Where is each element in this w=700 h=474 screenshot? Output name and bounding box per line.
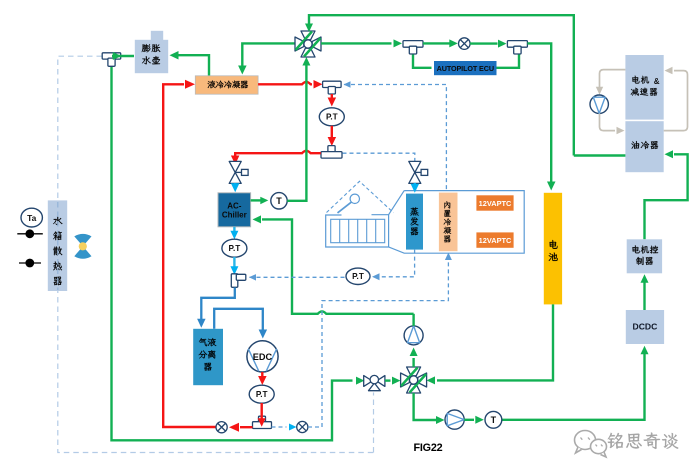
wire gray pump to oil cooler — [600, 114, 616, 131]
arrow green down into condenser top — [238, 66, 247, 75]
fitting tee red bottom inverted — [328, 146, 335, 153]
sensor probe2 — [19, 262, 41, 264]
wire cyan P.T to fitting — [233, 257, 235, 269]
svg-text:12VAPTC: 12VAPTC — [479, 199, 512, 208]
fitting tee expansion-tank — [102, 53, 121, 59]
wire green tee3 to battery — [527, 43, 551, 182]
wire red tee5 left to xvalveA (hop) — [235, 151, 321, 158]
pump oil pump3 — [590, 95, 608, 113]
wire green ox3 to tee3 — [470, 42, 498, 44]
wire green tee to tank + arrow — [112, 55, 134, 57]
compressor EDC — [247, 341, 278, 372]
wire green AC-Chiller to T sensor — [251, 199, 261, 201]
wire dashed evap P.T to fitting arrow — [249, 274, 256, 281]
component built-in condenser 内置冷凝器 — [439, 193, 458, 252]
sensor T bottom — [485, 411, 502, 428]
fitting tee autopilot left — [403, 41, 423, 48]
fan radiator fan — [74, 234, 91, 246]
wire red condenser to tee (hop over green) — [258, 82, 312, 84]
valve red shutoff ox1 — [216, 422, 227, 433]
wire green valve1 to condenser — [242, 43, 295, 66]
wire red P.T down to tee5 — [331, 126, 333, 139]
sensor P.T discharge — [249, 385, 274, 403]
wire blue separator to EDC — [214, 309, 263, 331]
sensor P.T evaporator — [346, 268, 370, 284]
wire green pump2 to T2 — [464, 419, 474, 421]
component HVAC damper flap — [350, 194, 359, 203]
wire dashed overlay radiator — [57, 202, 59, 290]
arrow cyan into evaporator — [414, 183, 416, 186]
svg-text:DCDC: DCDC — [632, 321, 657, 331]
wire green oil cooler left to top — [574, 154, 626, 156]
valve expansion xvalveA — [229, 161, 241, 172]
wire green controller to oil cooler — [645, 154, 688, 239]
component motor controller 电机控制器 — [627, 239, 662, 273]
wire blue fitting to separator — [201, 288, 235, 321]
component evaporator 蒸发器 — [406, 194, 423, 250]
watermark 铭思奇谈 — [608, 433, 623, 449]
label 膨胀水壶 — [142, 44, 151, 52]
wire green valve2 bottom to pump2 — [414, 393, 436, 420]
wire green DCDC to controller — [643, 282, 645, 310]
arrow green into oil cooler right — [665, 150, 674, 158]
watermark wechat logo — [575, 431, 607, 458]
valve multiport valve1 — [301, 31, 315, 40]
sensor probe1 — [17, 233, 43, 235]
label 电机控制器 — [632, 245, 639, 253]
svg-text:AC-: AC- — [227, 201, 242, 210]
wire green autopilot loop — [413, 55, 432, 68]
component HVAC intake dashed hood — [327, 181, 394, 212]
arrow green up into DCDC — [641, 346, 649, 355]
arrow green up into valve1 — [302, 57, 310, 66]
component HVAC casing outline — [326, 191, 525, 254]
svg-text:Chiller: Chiller — [222, 211, 247, 220]
component AC-Chiller — [218, 193, 251, 227]
wire green into 3-way valve arrow — [356, 377, 365, 385]
component motor&reducer 电机&减速器 — [625, 55, 663, 120]
fitting tee red top — [323, 81, 342, 87]
arrow green into tank right — [170, 51, 179, 60]
svg-text:AUTOPILOT ECU: AUTOPILOT ECU — [437, 64, 494, 73]
valve multiport valve2 — [407, 367, 421, 376]
component AUTOPILOT ECU box — [434, 61, 497, 75]
wire green condenser-out to tank — [175, 55, 209, 75]
svg-text:12VAPTC: 12VAPTC — [479, 236, 512, 245]
label 内置冷凝器 — [444, 201, 450, 208]
label 液冷冷凝器 — [208, 81, 216, 89]
wire green valve3 to valve2 — [385, 379, 391, 381]
component DCDC — [626, 310, 664, 344]
component PTC heater bottom 12VAPTC — [476, 232, 513, 247]
valve 3-way valve3 — [364, 376, 373, 387]
valve green shutoff ox3 — [459, 38, 471, 50]
valve expansion xvalveB — [409, 161, 421, 172]
component expansion tank cap — [151, 31, 163, 41]
svg-text:P.T: P.T — [352, 272, 364, 281]
svg-text:P.T: P.T — [256, 390, 268, 399]
svg-text:EDC: EDC — [253, 352, 273, 362]
arrow red into tee4 — [314, 80, 323, 89]
wire green oil-cooler to valve1 top — [309, 15, 574, 155]
wire red EDC to P.T — [261, 372, 263, 378]
arrow red into condenser left — [185, 80, 195, 89]
net control-boundary dashed left/bottom — [58, 56, 374, 452]
arrow gray into oil cooler left — [617, 127, 625, 135]
wire red tee7 left to oxvalve — [240, 426, 253, 428]
component PTC heater top 12VAPTC — [476, 195, 513, 210]
wire green valve2 to pump1 — [412, 358, 414, 367]
wire green T to valve1 bottom — [287, 64, 306, 201]
wire green tee2 to oxvalve3 — [423, 42, 450, 44]
svg-text:T: T — [491, 415, 497, 425]
component gas-liquid separator 气液分离器 — [193, 329, 223, 385]
arrow gray down into pump3 — [596, 87, 603, 95]
wire green valve1 right run — [321, 42, 392, 44]
wire red left vertical riser — [163, 84, 216, 427]
valve dashed shutoff ox2 — [297, 421, 308, 432]
component expansion tank 膨胀水壶 — [135, 40, 168, 73]
label 气液分离器 — [199, 338, 207, 346]
svg-text:FIG22: FIG22 — [413, 442, 442, 454]
wire gray oil cooler right loop — [664, 71, 688, 131]
svg-text:&: & — [654, 77, 660, 86]
component HVAC filter — [331, 219, 385, 242]
wire red tee4 down to P.T — [331, 94, 333, 100]
arrow gray into motor right — [665, 67, 673, 75]
wire green left vertical from tee to bottom — [112, 63, 353, 440]
wire dashed tee5 to evaporator valve — [343, 153, 415, 161]
component liquid-cooled condenser 液冷冷凝器 — [195, 76, 258, 94]
sensor Ta ambient — [21, 208, 42, 227]
wire dashed tee7 to ox2 to riser — [272, 426, 287, 428]
component battery 电池 — [544, 193, 562, 305]
wire green return into AC-Chiller right — [262, 219, 414, 313]
arrow red down into xvalveA — [231, 156, 240, 165]
wire dashed tee4 to built-in condenser — [344, 81, 351, 88]
arrow green into valve2 right — [427, 376, 436, 384]
svg-text:Ta: Ta — [27, 213, 36, 223]
svg-text:T: T — [276, 196, 282, 206]
svg-text:P.T: P.T — [229, 244, 241, 253]
wire green battery to valve2 — [437, 304, 553, 380]
arrow green down into valve1 top — [305, 24, 313, 33]
wire dashed ox2 up to inner condenser — [308, 259, 448, 428]
sensor P.T top — [319, 108, 344, 126]
svg-text:P.T: P.T — [326, 113, 338, 122]
wire dashed evaporator to P.T — [379, 250, 415, 277]
label 电池 — [550, 240, 558, 249]
sensor T AC outlet — [271, 193, 287, 209]
wire green T2 to DCDC — [502, 354, 645, 420]
wire gray motor to pump — [600, 70, 626, 88]
wire cyan AC-Chiller to P.T — [233, 227, 235, 233]
sensor P.T chiller — [222, 239, 247, 257]
wire green pump1 top corner — [412, 314, 414, 326]
pump coolant pump1 — [404, 326, 423, 345]
arrow cyan into AC-Chiller — [234, 183, 236, 185]
component oil cooler 油冷器 — [625, 121, 663, 172]
fitting tee suction — [231, 274, 238, 288]
pump coolant pump2 — [445, 410, 464, 429]
fitting tee discharge — [259, 416, 266, 423]
label 蒸发器 — [410, 207, 418, 215]
label 电机&减速器 — [632, 76, 639, 84]
label 油冷器 — [632, 141, 640, 149]
wire dashed valve3 control drop — [373, 393, 375, 453]
arrow green into tee2 — [394, 39, 403, 47]
wire red P.T to tee7 — [261, 403, 263, 419]
fitting tee autopilot right — [507, 41, 527, 48]
arrow green into battery top — [547, 182, 556, 191]
arrow green into AC-Chiller right edge — [253, 215, 262, 223]
component radiator 水箱散热器 — [48, 200, 67, 291]
label 水箱散热器 — [53, 217, 62, 226]
